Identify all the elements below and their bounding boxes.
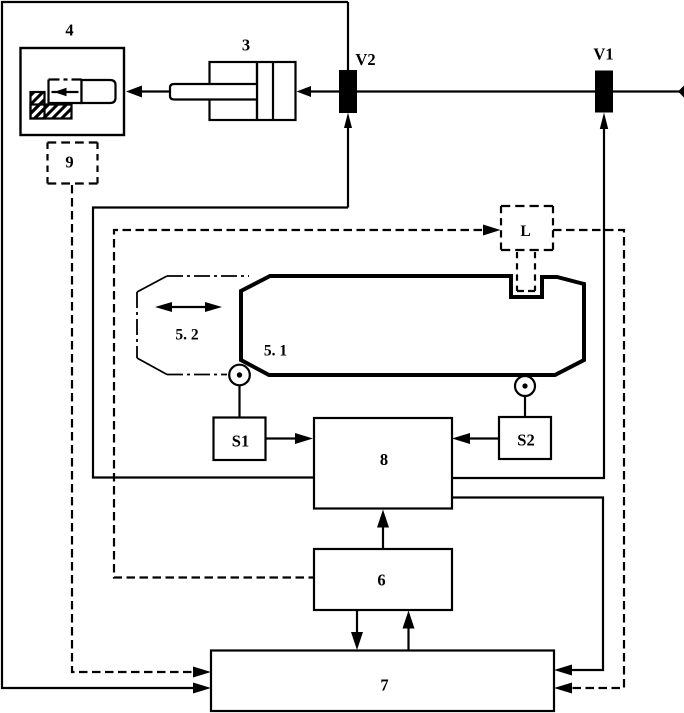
- svg-text:6: 6: [377, 571, 385, 590]
- svg-text:V1: V1: [593, 45, 613, 64]
- svg-text:V2: V2: [355, 50, 375, 69]
- svg-text:S2: S2: [517, 431, 534, 450]
- svg-text:8: 8: [380, 450, 388, 469]
- svg-text:5. 1: 5. 1: [264, 343, 287, 360]
- svg-text:9: 9: [65, 153, 73, 172]
- svg-text:5. 2: 5. 2: [175, 327, 199, 344]
- svg-text:L: L: [520, 223, 530, 240]
- svg-text:S1: S1: [232, 432, 249, 451]
- svg-text:4: 4: [65, 21, 73, 40]
- svg-text:7: 7: [380, 676, 388, 695]
- svg-text:3: 3: [242, 36, 250, 55]
